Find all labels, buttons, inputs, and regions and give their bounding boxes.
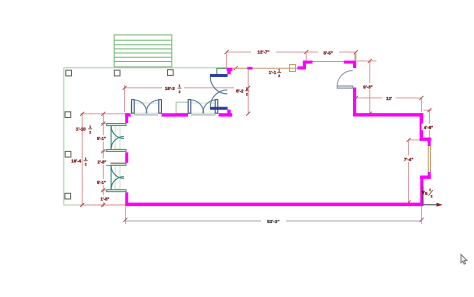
svg-text:1: 1 — [246, 87, 248, 91]
svg-text:12': 12' — [386, 96, 392, 101]
svg-text:2: 2 — [179, 90, 181, 94]
svg-text:4'-8": 4'-8" — [424, 125, 433, 130]
svg-text:2: 2 — [431, 195, 433, 199]
svg-text:53'-3": 53'-3" — [267, 219, 279, 224]
svg-text:5'-1": 5'-1" — [97, 180, 106, 185]
svg-text:8'-2: 8'-2 — [236, 89, 244, 94]
svg-text:2: 2 — [246, 93, 248, 97]
svg-text:1: 1 — [89, 125, 91, 129]
svg-text:2: 2 — [85, 163, 87, 167]
svg-text:1'-8": 1'-8" — [100, 196, 109, 201]
svg-text:1'-1: 1'-1 — [269, 70, 277, 75]
svg-text:1: 1 — [429, 188, 431, 192]
svg-text:5'-1": 5'-1" — [97, 136, 106, 141]
svg-text:2: 2 — [89, 131, 91, 135]
svg-text:1: 1 — [179, 84, 181, 88]
svg-text:2'-8": 2'-8" — [97, 160, 106, 165]
svg-text:1: 1 — [85, 157, 87, 161]
svg-text:1: 1 — [278, 68, 280, 72]
svg-text:9'-3": 9'-3" — [363, 85, 372, 90]
svg-text:18'-3: 18'-3 — [165, 86, 175, 91]
svg-text:16'-4: 16'-4 — [71, 159, 81, 164]
svg-text:1'-10: 1'-10 — [76, 127, 86, 132]
svg-text:8'-5": 8'-5" — [323, 51, 332, 56]
svg-text:12'-7": 12'-7" — [258, 50, 270, 55]
svg-text:2: 2 — [278, 74, 280, 78]
svg-text:7'-4": 7'-4" — [404, 157, 413, 162]
